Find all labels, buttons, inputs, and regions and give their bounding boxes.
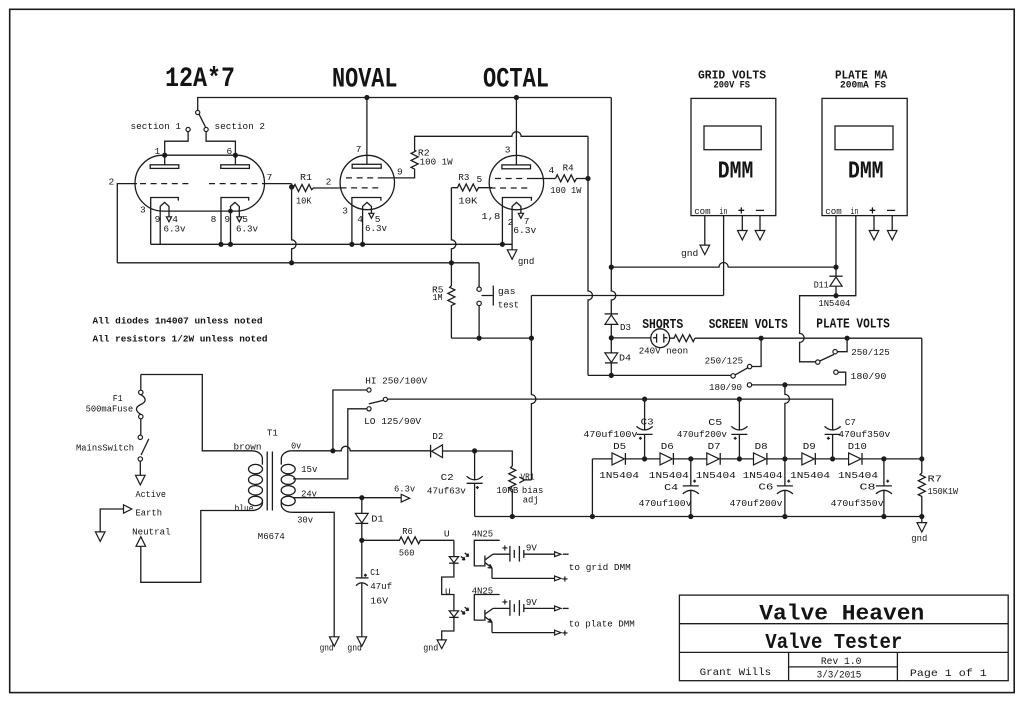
switch gas test pushbutton (477, 286, 493, 306)
wire: plate bus vertical down to D3 (hops grid meter line) (611, 98, 616, 314)
diode D4 (605, 338, 618, 376)
node: row junction C7 (830, 456, 835, 461)
svg-text:9: 9 (224, 214, 230, 225)
svg-text:6: 6 (227, 146, 233, 157)
svg-text:470uf350v: 470uf350v (838, 429, 890, 440)
wire: DMM1 com lead (704, 216, 706, 246)
svg-text:180/90: 180/90 (709, 382, 742, 393)
svg-text:1N5404: 1N5404 (818, 298, 850, 309)
svg-text:C5: C5 (708, 417, 722, 428)
wire: LED1 to LED2 jog (442, 563, 454, 611)
svg-text:470uf100v: 470uf100v (583, 429, 637, 440)
svg-text:R1: R1 (300, 172, 312, 183)
svg-text:1M: 1M (433, 292, 443, 303)
svg-text:250/125: 250/125 (705, 356, 744, 367)
cathode OCTAL bracket pins 1,8 (502, 198, 531, 245)
wire: U1 collector to battery (493, 553, 510, 555)
arrow terminal + (869, 231, 879, 240)
svg-text:D7: D7 (708, 441, 721, 452)
svg-text:test: test (498, 299, 519, 310)
node: pin1 on envelope (162, 153, 167, 158)
wire: row left corner down to rail (591, 459, 593, 517)
svg-text:T1: T1 (267, 428, 278, 439)
diode D10 (849, 453, 862, 465)
label - (563, 607, 569, 609)
svg-text:500maFuse: 500maFuse (86, 403, 134, 414)
heater section2 (231, 202, 242, 244)
node: row junction C3 (642, 456, 647, 461)
node: neon line on D3/D4 vertical (609, 335, 614, 340)
label - (887, 209, 895, 211)
wire: AC rail from HI/LO switch to C7 corner (388, 399, 833, 430)
wire: plate feed from D11 junction to plate-volts switch (hops neon line) (800, 296, 836, 362)
node: D1 on 24v line (359, 495, 364, 500)
wire: grid meter line to DMM1 in (531, 295, 723, 297)
svg-text:2: 2 (326, 177, 332, 188)
switch plate volts selector (816, 338, 848, 374)
wire: DMM2 in lead to D11 junction (836, 216, 856, 296)
svg-text:U: U (445, 586, 451, 597)
svg-text:1N5404: 1N5404 (696, 470, 736, 481)
svg-text:D1: D1 (371, 514, 384, 525)
svg-text:U: U (444, 529, 450, 540)
wire: neon line left segment (611, 337, 651, 339)
wire: screen-volts sense bus to DMM2 com (hops DMM1 in) (611, 263, 836, 268)
node: row end to R7 and neon line (919, 456, 924, 461)
svg-text:Valve Tester: Valve Tester (765, 632, 902, 655)
LED emission arrows (461, 553, 469, 560)
arrow terminal plus (555, 576, 561, 581)
heater section1 (160, 202, 171, 244)
diode D1 (355, 498, 368, 541)
svg-text:12A*7: 12A*7 (165, 64, 235, 95)
title block frame (679, 595, 1008, 681)
svg-text:6.3v: 6.3v (394, 484, 415, 495)
anode plate section2 (221, 155, 250, 168)
resistor R4 (556, 175, 589, 182)
node: NOVAL cathode leg on bus (349, 242, 354, 247)
arrow terminal minus (to plate DMM) (555, 606, 561, 611)
svg-text:LO 125/90V: LO 125/90V (364, 416, 421, 427)
opto U2 package outline (474, 595, 499, 621)
capacitor C8 470uf350v (876, 459, 892, 517)
svg-text:+: + (502, 599, 508, 610)
wire: screen feed vertical R2/R4 down to screen switch line (hops grid meter line) (588, 136, 593, 375)
node: C5 on AC rail (737, 397, 742, 402)
meter DMM1 box (691, 98, 776, 215)
valve V1 12A*7 envelope (135, 155, 265, 211)
svg-text:blue: blue (235, 503, 254, 514)
diode D7 (707, 453, 720, 465)
node: C4 on rail (688, 514, 693, 519)
meter DMM2 display (835, 126, 893, 150)
ground at DMM1 com (700, 245, 710, 255)
svg-text:SCREEN VOLTS: SCREEN VOLTS (709, 317, 788, 333)
svg-text:16V: 16V (370, 595, 388, 606)
control grid NOVAL (dashed) (341, 187, 382, 189)
label - (563, 553, 569, 555)
svg-text:8: 8 (211, 214, 217, 225)
svg-text:3/3/2015: 3/3/2015 (817, 669, 862, 680)
svg-text:150K1W: 150K1W (928, 486, 959, 497)
LED of opto U1 (449, 540, 458, 563)
svg-text:MainsSwitch: MainsSwitch (76, 443, 134, 454)
switch MainsSwitch (138, 435, 149, 475)
wire: doubler diode row (592, 458, 921, 460)
wire: top plate bus from section switch to right corner (198, 98, 612, 111)
node: plate 250/125 takeoff (845, 336, 850, 341)
arrow terminal Active (136, 475, 146, 485)
svg-text:6.3v: 6.3v (164, 224, 186, 235)
svg-text:+: + (869, 206, 876, 219)
svg-text:Grant Wills: Grant Wills (700, 667, 772, 679)
svg-text:to plate DMM: to plate DMM (569, 619, 635, 630)
valve V3 OCTAL envelope (489, 155, 543, 209)
resistor R6 560 (362, 537, 454, 544)
svg-text:10KB: 10KB (496, 485, 518, 496)
LED emission arrows (461, 607, 469, 614)
svg-text:470uf200v: 470uf200v (730, 498, 783, 509)
node: row junction C5 (737, 456, 742, 461)
svg-text:Rev 1.0: Rev 1.0 (821, 656, 862, 667)
ground at opto LEDs (437, 640, 446, 649)
diode D3 (605, 314, 618, 338)
svg-text:470uf200v: 470uf200v (677, 429, 727, 440)
svg-text:9V: 9V (526, 543, 537, 554)
resistor R2 (411, 151, 418, 171)
svg-text:section 1: section 1 (131, 121, 182, 132)
svg-text:Active: Active (136, 489, 167, 500)
svg-text:gnd: gnd (320, 642, 334, 653)
cathode NOVAL bracket pin3 (352, 198, 381, 245)
node: C2 top junction (472, 448, 477, 453)
svg-text:Earth: Earth (136, 507, 163, 518)
svg-text:OCTAL: OCTAL (483, 65, 549, 96)
svg-text:gnd: gnd (681, 248, 698, 259)
svg-text:R7: R7 (928, 473, 942, 484)
capacitor C3 470uf100v (637, 399, 653, 459)
svg-text:SHORTS: SHORTS (642, 317, 683, 333)
capacitor C7 470uf350v (825, 426, 841, 459)
ground at C1 (357, 637, 367, 647)
svg-text:M6674: M6674 (258, 531, 285, 542)
node: row junction C6/180-90 (782, 456, 787, 461)
wire: battery to minus terminal (524, 553, 555, 555)
arrow terminal + (738, 231, 748, 240)
resistor R3 (451, 184, 492, 191)
svg-text:gnd: gnd (518, 256, 534, 267)
node: C6 on rail (782, 514, 787, 519)
svg-text:D10: D10 (848, 441, 867, 452)
svg-text:adj: adj (523, 495, 539, 506)
node: D1/R6/C1 junction (359, 538, 364, 543)
svg-text:All diodes 1n4007 unless noted: All diodes 1n4007 unless noted (93, 316, 263, 327)
diode D11 1N5404 (829, 267, 842, 296)
meter DMM2 box (822, 98, 907, 215)
wire: DMM1 - lead (759, 216, 761, 231)
svg-text:4: 4 (357, 214, 363, 225)
svg-text:All resistors 1/2W unless note: All resistors 1/2W unless noted (93, 334, 268, 345)
svg-text:gnd: gnd (423, 642, 438, 653)
diode D6 (660, 453, 673, 465)
node: pin7/R1 junction (289, 184, 294, 189)
svg-text:9: 9 (397, 167, 403, 178)
battery 9V (grid) (510, 546, 524, 562)
arrow terminal minus (to grid DMM) (555, 552, 561, 557)
svg-text:NOVAL: NOVAL (332, 65, 398, 96)
node: 0v tap to HI riser (330, 448, 335, 453)
node: D4 bottom on screen switch line (609, 373, 614, 378)
wire: 180/90 link line between switches (752, 372, 846, 385)
svg-text:7: 7 (267, 172, 273, 183)
fuse F1 500maFuse (136, 375, 145, 436)
svg-text:+: + (738, 206, 745, 219)
diode D5 (612, 453, 625, 465)
neon lamp 240V (651, 329, 670, 348)
svg-text:+: + (562, 574, 568, 586)
anode plate section1 (150, 155, 179, 168)
svg-text:+: + (562, 629, 568, 641)
wire: 30v lead down to gnd (292, 512, 335, 637)
wire: pin9 to R2 (382, 171, 415, 178)
diode D9 (802, 453, 815, 465)
svg-text:3: 3 (140, 204, 146, 215)
svg-text:HI 250/100V: HI 250/100V (365, 376, 427, 387)
wire: cathode bus to OCTAL gnd (151, 243, 512, 245)
wire: U1 emitter to plus terminal (492, 577, 555, 579)
svg-text:1N5404: 1N5404 (743, 470, 783, 481)
wire: 0v tap to D2 (hop over LO feed) (292, 446, 431, 451)
svg-text:D5: D5 (613, 441, 626, 452)
capacitor C6 470uf200v (777, 459, 793, 517)
svg-text:D9: D9 (803, 441, 816, 452)
capacitor C2 47uf63v (467, 451, 483, 517)
potentiometer VR1 10KB (509, 466, 532, 517)
svg-text:470uf100v: 470uf100v (639, 498, 692, 509)
wire: riser 0v to HI contact (333, 390, 367, 451)
svg-text:C7: C7 (845, 417, 856, 428)
svg-text:Page 1 of 1: Page 1 of 1 (910, 668, 987, 680)
svg-text:10K: 10K (296, 196, 312, 207)
wire: 180/90 tap down to doubler row (hops AC rail) (785, 385, 790, 459)
wire: grid feed vertical down to VR1 wiper (hops AC rail) (531, 296, 536, 480)
svg-text:D2: D2 (432, 431, 443, 442)
svg-text:3: 3 (342, 206, 348, 217)
node: pin6 on envelope (233, 153, 238, 158)
svg-text:D11: D11 (814, 279, 829, 290)
svg-text:9V: 9V (526, 597, 537, 608)
svg-text:C8: C8 (860, 481, 876, 492)
svg-text:R3: R3 (458, 172, 469, 183)
node: NOVAL heater leg on bus (360, 242, 365, 247)
transformer T1 (249, 451, 296, 513)
terminal Neutral arrow and wire to primary bottom (136, 511, 252, 583)
svg-text:C2: C2 (441, 472, 454, 483)
svg-text:6.3v: 6.3v (513, 225, 536, 236)
node: C8 on rail (881, 514, 886, 519)
wire: grid bus (117, 262, 479, 264)
svg-text:10K: 10K (458, 196, 477, 207)
svg-text:100 1W: 100 1W (420, 157, 453, 168)
wire: R3 vertical to grid bus (hops cathode bus) (451, 188, 456, 263)
wire: screen switch common from feed line (588, 374, 731, 376)
svg-text:1N5404: 1N5404 (599, 470, 639, 481)
resistor R7 150K1W (918, 459, 925, 517)
svg-text:250/125: 250/125 (851, 347, 890, 358)
node: R3/R5 vertical on grid bus (449, 260, 454, 265)
arrow terminal - (755, 231, 765, 240)
svg-text:brown: brown (234, 441, 262, 452)
svg-text:D8: D8 (755, 441, 768, 452)
anode plate OCTAL (502, 98, 531, 169)
label - (756, 209, 764, 211)
grid section2 (dashed) (209, 183, 260, 185)
capacitor C1 47uf 16V (356, 540, 369, 637)
wire: DMM2 com lead to bus (835, 216, 837, 268)
node: OCTAL cathode leg on bus (500, 242, 505, 247)
heater OCTAL (512, 202, 523, 244)
battery 9V (plate) (510, 600, 524, 616)
wire: battery to minus terminal (524, 607, 555, 609)
wire: section2 contact to pin 6 (206, 132, 235, 156)
node: bus at left vertical (609, 265, 614, 270)
svg-text:VR1: VR1 (521, 471, 535, 482)
node: row junction C8 (881, 456, 886, 461)
svg-text:6.3v: 6.3v (236, 224, 258, 235)
node: bus at DMM2 com (833, 265, 838, 270)
node: pin8 leg on cathode bus (218, 242, 223, 247)
svg-text:240V neon: 240V neon (639, 346, 689, 357)
svg-text:4: 4 (549, 165, 555, 176)
wire: neon line to right corner (695, 337, 922, 339)
svg-text:C6: C6 (758, 481, 773, 492)
svg-text:gas: gas (498, 286, 516, 297)
svg-text:5: 5 (477, 174, 483, 185)
svg-text:1N5404: 1N5404 (649, 470, 689, 481)
svg-text:Neutral: Neutral (132, 527, 171, 538)
svg-text:470uf350v: 470uf350v (831, 498, 884, 509)
wire: pin2 grid to left and down to grid bus (117, 184, 137, 263)
svg-text:6.3v: 6.3v (365, 223, 387, 234)
node: screen 250/125 takeoff (759, 336, 764, 341)
node: R1 vertical on grid bus (289, 260, 294, 265)
svg-text:180/90: 180/90 (850, 371, 886, 382)
switch SW section select (section 1 / section 2) (186, 110, 208, 131)
svg-text:3: 3 (505, 145, 511, 156)
svg-text:4N25: 4N25 (472, 529, 494, 540)
capacitor C5 470uf200v (731, 399, 747, 459)
title block divider rows (679, 624, 1008, 653)
switch screen volts selector (731, 338, 761, 387)
node: 180/90 tap junction (782, 382, 787, 387)
wire: mains active to fuse and transformer primary top (141, 375, 252, 451)
wire: R1 junction vertical (hops cathode bus) (292, 184, 297, 263)
wire: gas test lower to bias line (478, 306, 480, 339)
node: C3 on AC rail (642, 397, 647, 402)
svg-text:C1: C1 (370, 567, 380, 578)
node: NOVAL plate junction on top bus (364, 95, 369, 100)
svg-text:30v: 30v (297, 514, 313, 525)
meter DMM1 display (704, 126, 761, 150)
svg-text:2: 2 (109, 177, 115, 188)
node: R4 to screen feed vertical (585, 176, 590, 181)
resistor R1 (292, 185, 341, 192)
svg-text:C3: C3 (641, 416, 654, 427)
svg-text:gnd: gnd (347, 642, 362, 653)
node: row junction C4 (688, 456, 693, 461)
wire: screen line R2 top to right (hops OCTAL plate) (415, 132, 588, 151)
svg-text:Valve Heaven: Valve Heaven (759, 602, 924, 627)
cathode section1 bracket pin3 (151, 198, 179, 245)
svg-text:1,8: 1,8 (481, 211, 500, 222)
node: OCTAL plate junction on top bus (514, 95, 519, 100)
wire: DMM1 + lead (741, 216, 743, 231)
svg-text:PLATE VOLTS: PLATE VOLTS (816, 317, 890, 333)
anode plate NOVAL (352, 98, 381, 169)
svg-text:DMM: DMM (718, 159, 754, 186)
svg-text:in: in (851, 206, 859, 217)
svg-text:section 2: section 2 (215, 121, 266, 132)
svg-text:DMM: DMM (848, 159, 884, 186)
wire: U2 collector to battery (493, 607, 510, 609)
phototransistor of U1 (485, 554, 493, 579)
ground at R7 (917, 517, 927, 533)
diode D8 (754, 453, 767, 465)
svg-text:1: 1 (155, 146, 161, 157)
resistor for neon (unlabelled) (670, 335, 695, 342)
node: pin9 leg on cathode bus (228, 242, 233, 247)
wire: neon line right corner down to doubler row end (921, 338, 923, 459)
arrow terminal - (887, 231, 897, 240)
wire: section1 contact to pin 1 (165, 132, 188, 156)
control grid OCTAL (dashed) (490, 187, 531, 189)
wire: 24v tap to D1 and 6.3v arrow (293, 497, 401, 499)
svg-text:15v: 15v (301, 464, 318, 475)
ground at 30v lead (329, 637, 339, 647)
svg-text:47uf63v: 47uf63v (427, 486, 466, 497)
svg-text:0v: 0v (291, 440, 301, 451)
svg-text:47uf: 47uf (370, 581, 392, 592)
phototransistor of U2 (485, 608, 493, 633)
wire: pin4 to R4 (531, 178, 556, 180)
wire: D2 output to VR1 top (475, 451, 513, 466)
terminal Earth (95, 505, 131, 542)
svg-text:R4: R4 (563, 162, 574, 173)
svg-text:D6: D6 (661, 441, 674, 452)
ground at cathode bus end (507, 244, 517, 259)
svg-text:C4: C4 (664, 482, 678, 493)
svg-text:in: in (719, 206, 727, 217)
heater NOVAL (363, 202, 374, 244)
cathode section2 bracket pin8 (221, 198, 249, 245)
wire: grid bus corner down to gas test (478, 263, 480, 287)
title block divider columns (789, 652, 898, 680)
capacitor C4 470uf100v (683, 459, 699, 517)
node: VR1 bottom on rail (510, 514, 515, 519)
svg-text:D3: D3 (620, 322, 631, 333)
LED of opto U2 (449, 611, 458, 618)
svg-text:gnd: gnd (911, 533, 927, 544)
svg-text:9: 9 (155, 214, 161, 225)
svg-text:com: com (825, 206, 842, 217)
node: D11 bottom junction (833, 293, 838, 298)
wire: DMM2 - lead (891, 216, 893, 231)
screen grid OCTAL (dashed) (495, 178, 531, 180)
svg-text:+: + (502, 545, 508, 556)
svg-text:200V FS: 200V FS (714, 80, 751, 91)
switch HI/LO selector (367, 388, 388, 411)
wire: DMM2 + lead (873, 216, 875, 231)
